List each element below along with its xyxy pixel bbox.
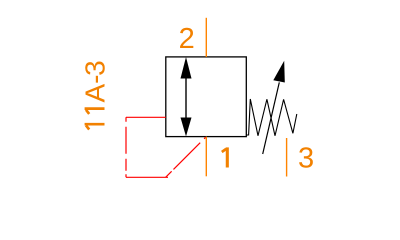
adjustment arrowhead — [273, 61, 285, 83]
arrowhead up — [181, 57, 192, 79]
svg-text:3: 3 — [80, 60, 111, 76]
device tag 11A-3 (rotated): two CAD-style "1" glyphs — [85, 109, 105, 130]
port 1 line — [205, 137, 207, 177]
arrowhead down — [181, 118, 192, 137]
port 1 label (CAD-style "1": stem + flag, no base serif) — [222, 147, 228, 167]
pilot line vertical dashed — [125, 117, 127, 177]
svg-text:A-: A- — [80, 75, 111, 103]
spring — [246, 99, 296, 136]
port 2 line — [205, 18, 207, 57]
valve body box — [166, 57, 247, 137]
svg-text:2: 2 — [179, 23, 195, 55]
pilot line horizontal bottom — [126, 176, 168, 178]
port 3 line — [286, 138, 288, 177]
adjustment arrow shaft — [263, 82, 280, 154]
double-headed flow arrow shaft — [185, 76, 187, 118]
svg-text:3: 3 — [298, 142, 314, 174]
pilot line horizontal top — [126, 116, 166, 118]
pilot line diagonal dashed — [166, 137, 206, 177]
